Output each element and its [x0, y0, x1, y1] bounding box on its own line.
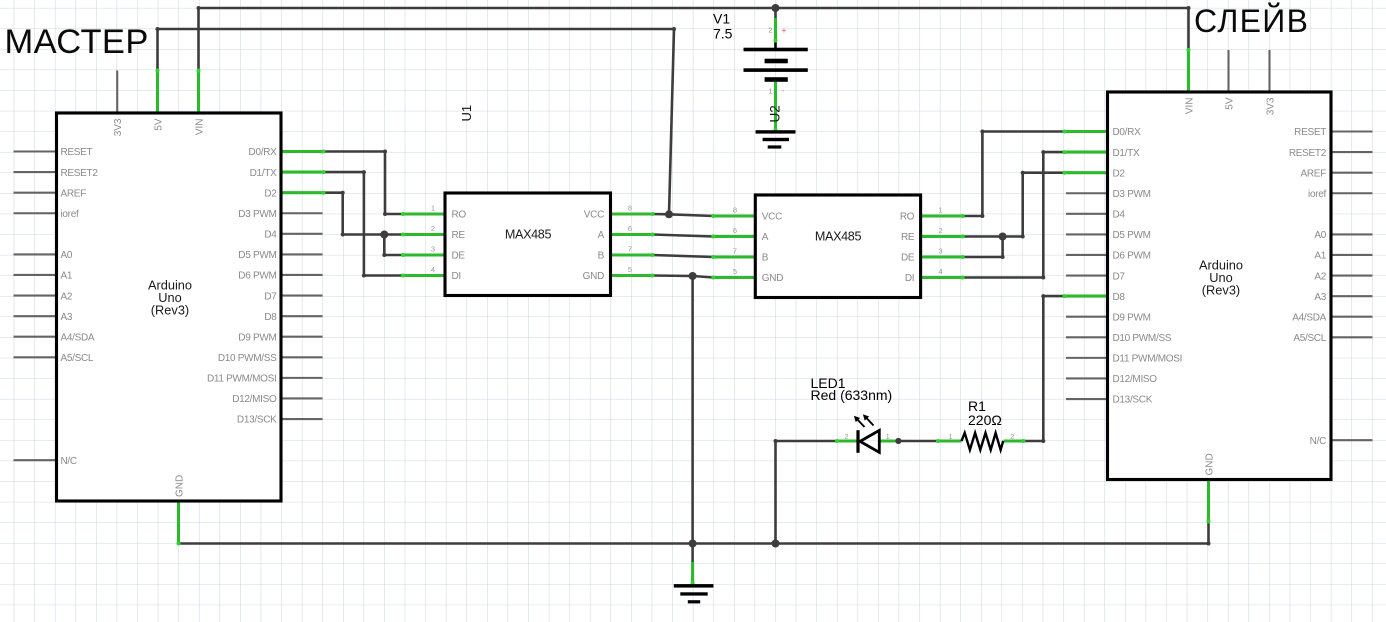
svg-text:D13/SCK: D13/SCK	[1113, 395, 1153, 406]
svg-text:A5/SCL: A5/SCL	[61, 353, 94, 364]
svg-text:(Rev3): (Rev3)	[1202, 283, 1240, 298]
svg-text:RESET: RESET	[61, 147, 93, 158]
svg-text:A1: A1	[61, 271, 73, 282]
svg-text:GND: GND	[583, 271, 604, 282]
svg-text:7: 7	[628, 245, 632, 254]
svg-text:ioref: ioref	[1308, 189, 1326, 200]
svg-text:3: 3	[939, 247, 943, 256]
svg-text:DE: DE	[901, 253, 915, 264]
svg-text:D5 PWM: D5 PWM	[238, 250, 276, 261]
svg-text:3V3: 3V3	[113, 118, 124, 136]
svg-text:DI: DI	[452, 271, 461, 282]
svg-text:1: 1	[431, 204, 435, 213]
svg-text:1: 1	[939, 206, 943, 215]
svg-text:D0/RX: D0/RX	[249, 147, 278, 158]
svg-text:2: 2	[431, 224, 435, 233]
svg-text:5V: 5V	[1225, 97, 1236, 110]
svg-text:D2: D2	[264, 188, 277, 199]
svg-text:A5/SCL: A5/SCL	[1293, 333, 1326, 344]
svg-text:A0: A0	[61, 250, 73, 261]
svg-text:2: 2	[1010, 432, 1014, 441]
svg-text:7: 7	[733, 247, 737, 256]
svg-text:1: 1	[768, 87, 772, 96]
svg-text:D11 PWM/MOSI: D11 PWM/MOSI	[1113, 354, 1183, 365]
svg-text:8: 8	[733, 206, 737, 215]
svg-text:D4: D4	[1113, 210, 1126, 221]
svg-text:A: A	[598, 230, 605, 241]
svg-text:RESET: RESET	[1294, 127, 1326, 138]
svg-text:8: 8	[628, 204, 632, 213]
svg-text:B: B	[762, 253, 769, 264]
svg-text:A4/SDA: A4/SDA	[61, 332, 95, 343]
svg-text:7.5: 7.5	[713, 26, 733, 42]
svg-text:4: 4	[939, 267, 943, 276]
svg-text:N/C: N/C	[1310, 436, 1326, 447]
svg-text:MAX485: MAX485	[815, 229, 862, 243]
svg-text:VIN: VIN	[195, 119, 206, 136]
svg-text:D3 PWM: D3 PWM	[238, 209, 276, 220]
svg-text:A3: A3	[1314, 292, 1326, 303]
svg-text:D10 PWM/SS: D10 PWM/SS	[218, 353, 277, 364]
svg-text:A2: A2	[1314, 271, 1326, 282]
svg-text:D8: D8	[1113, 292, 1126, 303]
svg-text:D8: D8	[264, 312, 277, 323]
svg-text:U1: U1	[459, 105, 474, 122]
svg-text:D1/TX: D1/TX	[1113, 148, 1140, 159]
svg-text:1: 1	[949, 432, 953, 441]
svg-text:3V3: 3V3	[1266, 97, 1277, 115]
svg-text:VCC: VCC	[762, 212, 782, 223]
svg-text:A4/SDA: A4/SDA	[1292, 312, 1326, 323]
svg-text:RE: RE	[901, 232, 915, 243]
svg-text:6: 6	[628, 224, 632, 233]
svg-text:D12/MISO: D12/MISO	[232, 394, 277, 405]
svg-text:VCC: VCC	[584, 210, 604, 221]
svg-text:D1/TX: D1/TX	[250, 168, 277, 179]
svg-text:N/C: N/C	[61, 456, 77, 467]
svg-text:GND: GND	[762, 273, 783, 284]
svg-text:D7: D7	[264, 291, 277, 302]
svg-text:4: 4	[431, 265, 435, 274]
svg-text:D5 PWM: D5 PWM	[1113, 230, 1151, 241]
svg-text:GND: GND	[1205, 453, 1216, 475]
svg-text:D4: D4	[264, 230, 277, 241]
svg-text:5V: 5V	[154, 118, 165, 131]
svg-text:D0/RX: D0/RX	[1113, 127, 1142, 138]
svg-text:220Ω: 220Ω	[968, 412, 1002, 428]
svg-text:D2: D2	[1113, 168, 1126, 179]
svg-text:DI: DI	[905, 273, 914, 284]
svg-text:U2: U2	[767, 105, 782, 122]
svg-text:RO: RO	[452, 210, 467, 221]
svg-text:A2: A2	[61, 291, 73, 302]
svg-text:D6 PWM: D6 PWM	[238, 271, 276, 282]
svg-text:2: 2	[844, 432, 848, 441]
svg-text:RE: RE	[452, 230, 466, 241]
svg-text:D6 PWM: D6 PWM	[1113, 251, 1151, 262]
svg-text:A: A	[762, 232, 769, 243]
svg-text:ioref: ioref	[61, 209, 79, 220]
svg-text:D3 PWM: D3 PWM	[1113, 189, 1151, 200]
svg-text:B: B	[598, 251, 605, 262]
svg-text:МАСТЕР: МАСТЕР	[5, 23, 149, 61]
svg-text:V1: V1	[713, 11, 730, 27]
svg-text:RO: RO	[900, 212, 915, 223]
svg-text:RESET2: RESET2	[61, 168, 99, 179]
svg-text:5: 5	[733, 267, 737, 276]
svg-text:AREF: AREF	[1301, 168, 1327, 179]
svg-text:DE: DE	[452, 251, 466, 262]
svg-text:MAX485: MAX485	[505, 227, 552, 241]
svg-text:(Rev3): (Rev3)	[151, 303, 189, 318]
svg-text:GND: GND	[175, 475, 186, 497]
svg-text:+: +	[782, 25, 787, 35]
svg-text:2: 2	[939, 226, 943, 235]
svg-text:D9 PWM: D9 PWM	[238, 332, 276, 343]
svg-text:D10 PWM/SS: D10 PWM/SS	[1113, 333, 1172, 344]
svg-text:D12/MISO: D12/MISO	[1113, 374, 1158, 385]
svg-text:5: 5	[628, 265, 632, 274]
svg-text:RESET2: RESET2	[1289, 148, 1327, 159]
svg-text:VIN: VIN	[1185, 98, 1196, 115]
svg-text:2: 2	[768, 26, 772, 35]
svg-text:A1: A1	[1314, 251, 1326, 262]
svg-text:Red (633nm): Red (633nm)	[811, 387, 893, 403]
svg-text:1: 1	[886, 432, 890, 441]
svg-text:AREF: AREF	[61, 188, 87, 199]
svg-text:D7: D7	[1113, 271, 1126, 282]
svg-text:A3: A3	[61, 312, 73, 323]
svg-text:6: 6	[733, 226, 737, 235]
svg-text:D13/SCK: D13/SCK	[237, 415, 277, 426]
svg-text:3: 3	[431, 245, 435, 254]
svg-text:A0: A0	[1314, 230, 1326, 241]
svg-text:СЛЕЙВ: СЛЕЙВ	[1194, 3, 1309, 39]
svg-text:D9 PWM: D9 PWM	[1113, 312, 1151, 323]
svg-text:D11 PWM/MOSI: D11 PWM/MOSI	[207, 374, 277, 385]
